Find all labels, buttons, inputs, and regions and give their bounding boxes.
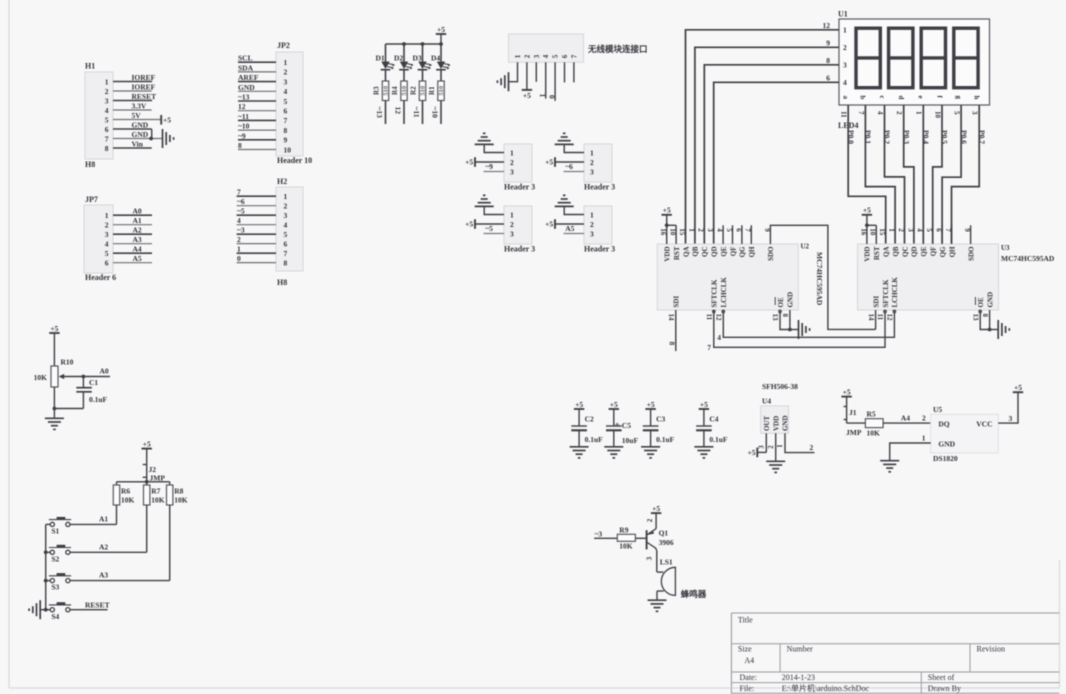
wire S4 RESET stub	[70, 601, 110, 610]
capacitor C1 0.1uF	[76, 377, 107, 409]
svg-text:QH: QH	[748, 246, 756, 257]
resistor R8 10K	[167, 485, 188, 505]
wire segment c to U3 QC	[885, 105, 905, 244]
LED D2	[394, 44, 413, 70]
svg-text:5: 5	[725, 228, 733, 232]
wire SFTCLK net 7	[707, 310, 885, 352]
svg-text:A2: A2	[99, 542, 108, 551]
svg-text:GND: GND	[132, 121, 149, 130]
svg-text:8: 8	[981, 314, 989, 318]
svg-text:R2: R2	[409, 86, 417, 95]
display U1 bottom pin g (pad 5)	[953, 96, 963, 116]
wire button common rail	[44, 524, 50, 611]
svg-text:SDO: SDO	[967, 246, 975, 261]
svg-text:A3: A3	[133, 235, 142, 244]
svg-text:7: 7	[707, 343, 711, 352]
resistor R1 510	[428, 70, 445, 101]
svg-text:2: 2	[523, 54, 531, 58]
U3 pin SDI (14)	[867, 296, 881, 321]
svg-text:6: 6	[105, 259, 109, 268]
svg-text:9: 9	[826, 38, 830, 47]
svg-text:D1: D1	[376, 54, 385, 63]
svg-text:GND: GND	[132, 130, 149, 139]
switch S3	[49, 574, 71, 591]
svg-text:8: 8	[781, 314, 789, 318]
jumper J2 JMP	[143, 462, 166, 483]
svg-text:8: 8	[284, 126, 288, 135]
svg-text:A4: A4	[744, 656, 754, 665]
svg-text:C5: C5	[622, 421, 631, 430]
svg-text:~10: ~10	[238, 122, 250, 131]
wire Q1 emitter to +5	[646, 504, 662, 529]
svg-text:SDA: SDA	[238, 63, 254, 72]
U3 top pin QC (2)	[897, 228, 909, 257]
svg-text:13: 13	[971, 314, 979, 322]
wire R5 to U5 DQ net A4	[883, 414, 931, 424]
svg-text:OE: OE	[977, 297, 985, 307]
svg-text:VDD: VDD	[664, 247, 672, 262]
JP2 pin wires with net labels SCL/SDA/AREF/GND/~13/12/~11/~10/~9/8	[238, 54, 276, 150]
svg-text:+5: +5	[163, 115, 171, 124]
wireless module title 无线模块连接口	[587, 44, 648, 54]
ground at wireless pin1	[497, 72, 508, 91]
wire wireless pin3 stub	[535, 62, 537, 82]
svg-text:~5: ~5	[485, 224, 493, 233]
svg-text:Header 3: Header 3	[584, 183, 615, 192]
U3 pin GND (8)	[981, 292, 995, 318]
U3 top pin QD (3)	[906, 228, 918, 257]
svg-text:6: 6	[561, 54, 569, 58]
svg-text:SFTCLK: SFTCLK	[711, 279, 719, 308]
svg-text:+5: +5	[437, 25, 445, 34]
wire Header3 ~5 pin1 to ground	[484, 206, 504, 214]
display U1 bottom pin c (pad 4)	[876, 96, 886, 116]
svg-text:510: 510	[383, 86, 390, 96]
svg-text:D3: D3	[413, 54, 422, 63]
wire U2 SDO to U3 SDI	[770, 225, 875, 329]
svg-text:510: 510	[420, 86, 427, 96]
svg-text:16: 16	[659, 228, 667, 236]
svg-text:1: 1	[915, 111, 923, 115]
svg-text:1: 1	[237, 245, 241, 254]
svg-text:2: 2	[646, 518, 654, 522]
svg-text:J1: J1	[849, 408, 857, 417]
svg-text:Header 3: Header 3	[504, 245, 535, 254]
svg-text:8: 8	[238, 141, 242, 150]
svg-text:SDI: SDI	[673, 296, 681, 308]
svg-text:7: 7	[857, 111, 865, 115]
svg-text:1: 1	[888, 228, 896, 232]
wire display digit 4 to U2 QD	[714, 82, 839, 244]
svg-text:3906: 3906	[659, 538, 674, 547]
U3 pin OE (13)	[971, 297, 985, 321]
wire U5 VCC to +5	[998, 383, 1023, 423]
svg-text:10K: 10K	[121, 496, 135, 505]
switch S4	[49, 603, 71, 620]
display U1 bottom pin b (pad 7)	[857, 96, 867, 116]
svg-text:3: 3	[510, 167, 514, 176]
wire display digit 1 to U2 QA	[686, 30, 840, 244]
net label P0.7	[977, 130, 986, 144]
svg-text:a: a	[842, 96, 850, 100]
svg-text:10: 10	[933, 111, 941, 119]
svg-text:7: 7	[284, 116, 288, 125]
resistor R9 10K	[617, 526, 635, 551]
svg-text:~3: ~3	[595, 530, 603, 539]
resistor R7 10K	[144, 485, 165, 505]
svg-text:4: 4	[916, 228, 924, 232]
wire LED column 1 to net ~13	[375, 101, 385, 125]
svg-text:2: 2	[105, 87, 109, 96]
net label ~3	[594, 530, 617, 539]
svg-text:A2: A2	[133, 226, 142, 235]
LED D1	[376, 44, 395, 70]
svg-text:~9: ~9	[485, 162, 493, 171]
svg-text:2: 2	[237, 235, 241, 244]
switch S1	[49, 518, 71, 535]
U3 top pin QA (15)	[878, 228, 890, 257]
svg-text:3: 3	[590, 167, 594, 176]
svg-text:QH: QH	[948, 246, 956, 257]
svg-text:VDD: VDD	[864, 247, 872, 262]
buzzer label 蜂鸣器	[681, 589, 707, 599]
display U1 designator LED4	[838, 121, 858, 130]
svg-text:IOREF: IOREF	[132, 83, 156, 92]
svg-text:3: 3	[105, 230, 109, 239]
svg-text:12: 12	[823, 21, 831, 30]
svg-text:10K: 10K	[34, 373, 48, 382]
svg-text:2: 2	[510, 220, 514, 229]
title block texts	[738, 616, 1005, 694]
svg-text:12: 12	[886, 314, 894, 322]
svg-text:C1: C1	[89, 378, 98, 387]
U3 top pin VDD (16)	[859, 225, 871, 261]
svg-text:Number: Number	[787, 645, 814, 654]
svg-text:R1: R1	[428, 86, 436, 95]
wire Header3 ~6 pin1 to ground	[564, 144, 584, 152]
capacitor C4 0.1uF	[696, 400, 728, 447]
wire segment g to U3 QG	[942, 105, 961, 244]
svg-text:1: 1	[687, 228, 695, 232]
svg-text:3: 3	[590, 229, 594, 238]
svg-text:10K: 10K	[867, 429, 881, 438]
wire Header3 ~9 pin1 to ground	[484, 144, 504, 152]
svg-text:AREF: AREF	[238, 73, 259, 82]
wire pull-up rail	[117, 480, 170, 485]
svg-text:+5: +5	[575, 400, 583, 409]
svg-text:GND: GND	[938, 439, 955, 448]
U2 top pin QF (5)	[725, 225, 737, 256]
svg-text:0.1uF: 0.1uF	[709, 435, 728, 444]
svg-text:0: 0	[237, 254, 241, 263]
wire wireless pin4 net 1	[538, 62, 547, 98]
svg-text:R8: R8	[174, 487, 183, 496]
wire display digit 2 to U2 QB	[695, 47, 839, 244]
svg-text:3: 3	[105, 96, 109, 105]
wire S1 to net A1	[70, 515, 117, 525]
svg-text:5: 5	[284, 97, 288, 106]
svg-text:g: g	[954, 96, 962, 100]
svg-text:510: 510	[438, 86, 445, 96]
svg-text:10: 10	[284, 145, 292, 154]
H1 designator H8	[85, 160, 95, 169]
svg-text:U5: U5	[933, 405, 942, 414]
svg-text:6: 6	[826, 73, 830, 82]
svg-text:RST: RST	[673, 246, 681, 260]
ground at S4	[29, 600, 40, 619]
svg-text:+5: +5	[545, 220, 553, 229]
ground below C5	[604, 447, 623, 458]
wire wireless pin7 stub	[573, 62, 575, 82]
svg-text:+5: +5	[465, 220, 473, 229]
svg-text:9: 9	[763, 228, 771, 232]
svg-text:h: h	[973, 96, 981, 100]
connector Header 3 at ~5 box	[504, 206, 535, 254]
svg-text:S4: S4	[51, 612, 59, 621]
svg-text:+5: +5	[523, 91, 531, 100]
power +5 above LED rail	[436, 25, 446, 44]
svg-text:7: 7	[744, 228, 752, 232]
wire R6 to A1 row	[116, 505, 118, 524]
wire Header3 ~6 pin2 +5	[545, 157, 584, 167]
svg-text:U3: U3	[1001, 244, 1010, 252]
svg-text:SFH506-38: SFH506-38	[762, 382, 798, 391]
svg-text:15: 15	[878, 228, 886, 236]
wire wireless pin6 stub	[564, 62, 566, 82]
svg-text:+5: +5	[843, 387, 851, 396]
svg-text:C4: C4	[709, 415, 718, 424]
ground below C3	[641, 447, 660, 458]
svg-text:GND: GND	[986, 292, 994, 308]
U2 pin LCHCLK (12)	[715, 277, 729, 321]
ground below R10	[45, 418, 64, 429]
svg-text:6: 6	[734, 228, 742, 232]
svg-text:2: 2	[922, 414, 926, 423]
ground at U3	[998, 320, 1009, 339]
svg-text:QA: QA	[883, 247, 891, 258]
svg-text:4: 4	[284, 220, 288, 229]
svg-text:Q1: Q1	[659, 529, 669, 538]
power +5 on H1 pin 5	[161, 115, 171, 125]
svg-text:~9: ~9	[238, 131, 246, 140]
svg-text:蜂鸣器: 蜂鸣器	[681, 589, 707, 599]
ground above Header3 ~9	[475, 133, 494, 144]
wire wireless pin1 to ground	[509, 62, 518, 81]
svg-text:MC74HC595AD: MC74HC595AD	[1001, 254, 1055, 263]
U2 OE-GND wires	[780, 310, 799, 331]
svg-text:无线模块连接口: 无线模块连接口	[587, 44, 648, 54]
svg-text:6: 6	[284, 239, 288, 248]
switch S2	[49, 546, 71, 563]
net label P0.0	[846, 130, 855, 144]
svg-text:15: 15	[678, 228, 686, 236]
U2 pin SFTCLK (11)	[705, 279, 719, 321]
svg-text:8: 8	[105, 144, 109, 153]
svg-text:R4: R4	[391, 86, 399, 95]
wire U5 GND to ground	[890, 434, 931, 461]
svg-text:4: 4	[105, 240, 109, 249]
svg-text:IOREF: IOREF	[132, 73, 156, 82]
U2 top pin QH (7)	[744, 225, 756, 257]
svg-text:6: 6	[935, 228, 943, 232]
svg-text:~11: ~11	[412, 107, 421, 118]
wire segment b to U3 QB	[865, 105, 895, 244]
svg-text:2: 2	[590, 158, 594, 167]
H1 pin wires with labels IOREF/IOREF/RESET/3.3V/5V/GND/GND/Vin	[113, 73, 163, 149]
connector JP2 box and pin numbers	[276, 41, 303, 156]
svg-text:QC: QC	[701, 247, 709, 258]
svg-text:3: 3	[510, 229, 514, 238]
net label P0.2	[883, 130, 892, 144]
U2 +5 power to VDD/RST	[662, 206, 677, 228]
svg-text:3: 3	[1009, 414, 1013, 423]
svg-text:2: 2	[895, 111, 903, 115]
svg-text:QE: QE	[920, 246, 928, 256]
svg-text:1: 1	[922, 434, 926, 443]
svg-text:3: 3	[533, 54, 541, 58]
svg-text:2014-1-23: 2014-1-23	[782, 673, 815, 682]
svg-text:~10: ~10	[431, 107, 440, 119]
resistor R3 510	[372, 70, 389, 101]
U3 OE-GND wires	[980, 310, 998, 331]
svg-text:4: 4	[284, 87, 288, 96]
wire LED supply rail	[386, 42, 443, 46]
svg-text:Title: Title	[738, 616, 753, 625]
U2 top pin QA (15)	[678, 228, 690, 257]
resistor R6 10K	[113, 485, 134, 505]
svg-text:11: 11	[876, 314, 884, 321]
svg-text:11: 11	[840, 111, 848, 118]
svg-text:File:: File:	[740, 684, 755, 693]
wire Header3 ~5 pin2 +5	[465, 219, 504, 229]
svg-text:b: b	[859, 96, 867, 100]
U2 top pin QD (3)	[706, 228, 718, 257]
svg-text:+5: +5	[663, 206, 671, 215]
svg-text:5: 5	[105, 249, 109, 258]
svg-text:QD: QD	[911, 247, 919, 258]
ground above Header3 ~5	[475, 195, 494, 206]
net label P0.1	[864, 130, 873, 144]
svg-text:3: 3	[971, 111, 979, 115]
svg-text:U2: U2	[801, 243, 810, 251]
svg-text:MC74HC595AD: MC74HC595AD	[815, 252, 824, 306]
svg-text:+5: +5	[610, 400, 618, 409]
svg-text:C2: C2	[585, 415, 594, 424]
svg-text:QF: QF	[930, 247, 938, 257]
svg-text:Revision: Revision	[977, 645, 1005, 654]
svg-text:+: +	[615, 420, 620, 430]
wire Header3 ~5 pin3 net ~5	[484, 224, 504, 233]
svg-text:S2: S2	[51, 554, 59, 563]
U2 pin OE (13)	[771, 297, 785, 321]
svg-text:7: 7	[284, 249, 288, 258]
svg-text:4: 4	[237, 216, 241, 225]
svg-text:+5: +5	[700, 400, 708, 409]
svg-text:9: 9	[963, 228, 971, 232]
resistor R2 510	[409, 70, 426, 101]
display U1 digit glyphs	[856, 28, 978, 87]
svg-text:A0: A0	[133, 207, 142, 216]
U3 +5 power to VDD/RST	[862, 206, 877, 228]
svg-text:A4: A4	[133, 245, 142, 254]
buzzer LS1	[657, 558, 676, 596]
wire Header3 A5 pin1 to ground	[564, 206, 584, 214]
svg-text:c: c	[878, 96, 886, 99]
svg-text:R9: R9	[619, 526, 628, 535]
svg-text:+5: +5	[647, 400, 655, 409]
svg-text:SDO: SDO	[767, 246, 775, 261]
U4 pin OUT (3)	[759, 416, 771, 453]
svg-text:7: 7	[237, 188, 241, 197]
svg-text:U4: U4	[762, 397, 771, 406]
svg-text:+5: +5	[465, 158, 473, 167]
svg-text:H8: H8	[85, 160, 95, 169]
svg-text:1: 1	[284, 58, 288, 67]
wire LCHCLK net 4	[717, 310, 894, 342]
U3 pin SFTCLK (11)	[876, 279, 890, 321]
wire LED column 3 to net ~11	[412, 101, 422, 125]
svg-text:3.3V: 3.3V	[132, 102, 147, 111]
svg-text:U1: U1	[838, 10, 848, 19]
svg-text:11: 11	[705, 314, 713, 321]
U2 top pin QB (1)	[687, 228, 699, 256]
U3 pin LCHCLK (12)	[886, 277, 900, 321]
svg-text:QE: QE	[720, 246, 728, 256]
LED D4	[431, 44, 450, 70]
svg-text:8: 8	[284, 258, 288, 267]
svg-text:JP2: JP2	[277, 41, 290, 50]
title block table lines	[9, 613, 1059, 694]
svg-text:Drawn By: Drawn By	[928, 684, 961, 693]
svg-text:JP7: JP7	[85, 195, 98, 204]
svg-text:VCC: VCC	[976, 420, 992, 429]
connector Header 3 at ~9 box	[504, 144, 535, 192]
svg-text:5: 5	[953, 111, 961, 115]
svg-text:1: 1	[510, 210, 514, 219]
svg-text:5V: 5V	[132, 111, 142, 120]
JP7 designator Header 6	[85, 273, 116, 282]
svg-text:~13: ~13	[375, 107, 384, 119]
svg-text:0.1uF: 0.1uF	[656, 435, 675, 444]
wire segment d to U3 QD	[904, 105, 914, 244]
svg-text:Sheet of: Sheet of	[928, 673, 955, 682]
connector JP7 box and pin numbers	[84, 195, 113, 273]
svg-text:QB: QB	[692, 246, 700, 256]
connector Header 3 at A5 box	[584, 206, 615, 254]
ground below buzzer LS1	[648, 600, 667, 611]
ground below C2	[570, 447, 589, 458]
svg-text:4: 4	[717, 333, 721, 342]
capacitor C3 0.1uF	[643, 400, 675, 447]
power +5 to U4	[747, 448, 766, 458]
svg-text:0.1uF: 0.1uF	[89, 395, 108, 404]
svg-text:1: 1	[284, 192, 288, 201]
U4 pin GND (1)	[777, 415, 814, 452]
svg-text:D4: D4	[431, 54, 440, 63]
svg-text:3: 3	[706, 228, 714, 232]
wireless module connector box (7 pins)	[509, 34, 584, 62]
svg-text:0: 0	[547, 95, 556, 99]
wire H1 GND pin6 to pin7	[149, 129, 153, 140]
svg-text:~5: ~5	[237, 207, 245, 216]
U2 pin SDI (14)	[667, 296, 681, 321]
svg-text:7: 7	[944, 228, 952, 232]
svg-text:OE: OE	[777, 297, 785, 307]
svg-text:10uF: 10uF	[622, 436, 639, 445]
svg-text:+5: +5	[747, 448, 755, 457]
capacitor C5 10uF	[606, 400, 638, 447]
svg-text:1: 1	[843, 26, 847, 35]
